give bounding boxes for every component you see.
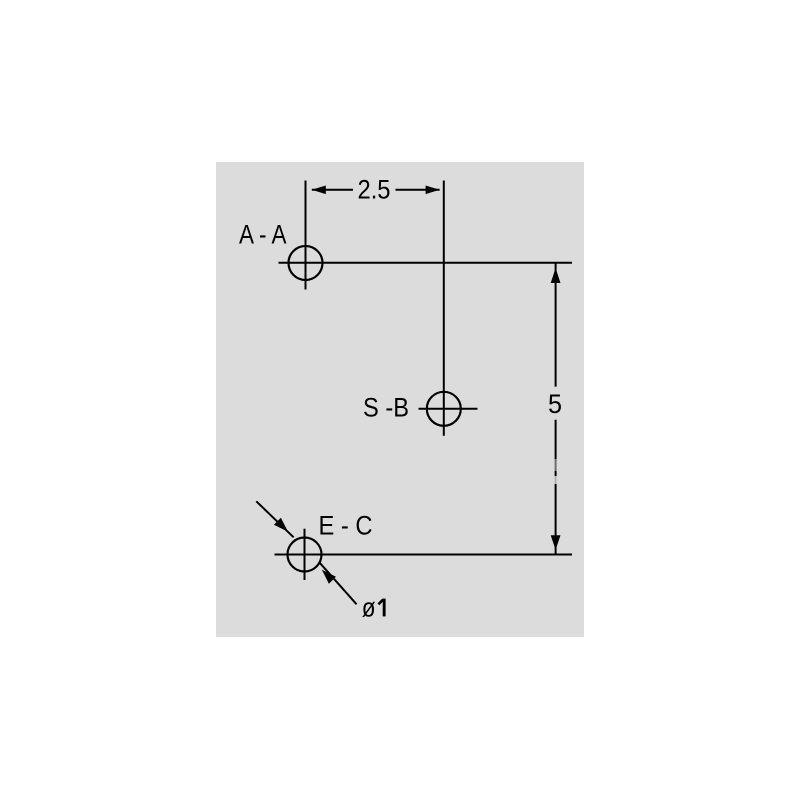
svg-text:A - A: A - A xyxy=(239,220,287,250)
svg-text:5: 5 xyxy=(548,389,562,419)
svg-text:2.5: 2.5 xyxy=(358,174,391,204)
svg-text:E - C: E - C xyxy=(319,510,373,540)
svg-text:ø: ø xyxy=(362,592,376,622)
svg-text:S -B: S -B xyxy=(363,393,409,423)
